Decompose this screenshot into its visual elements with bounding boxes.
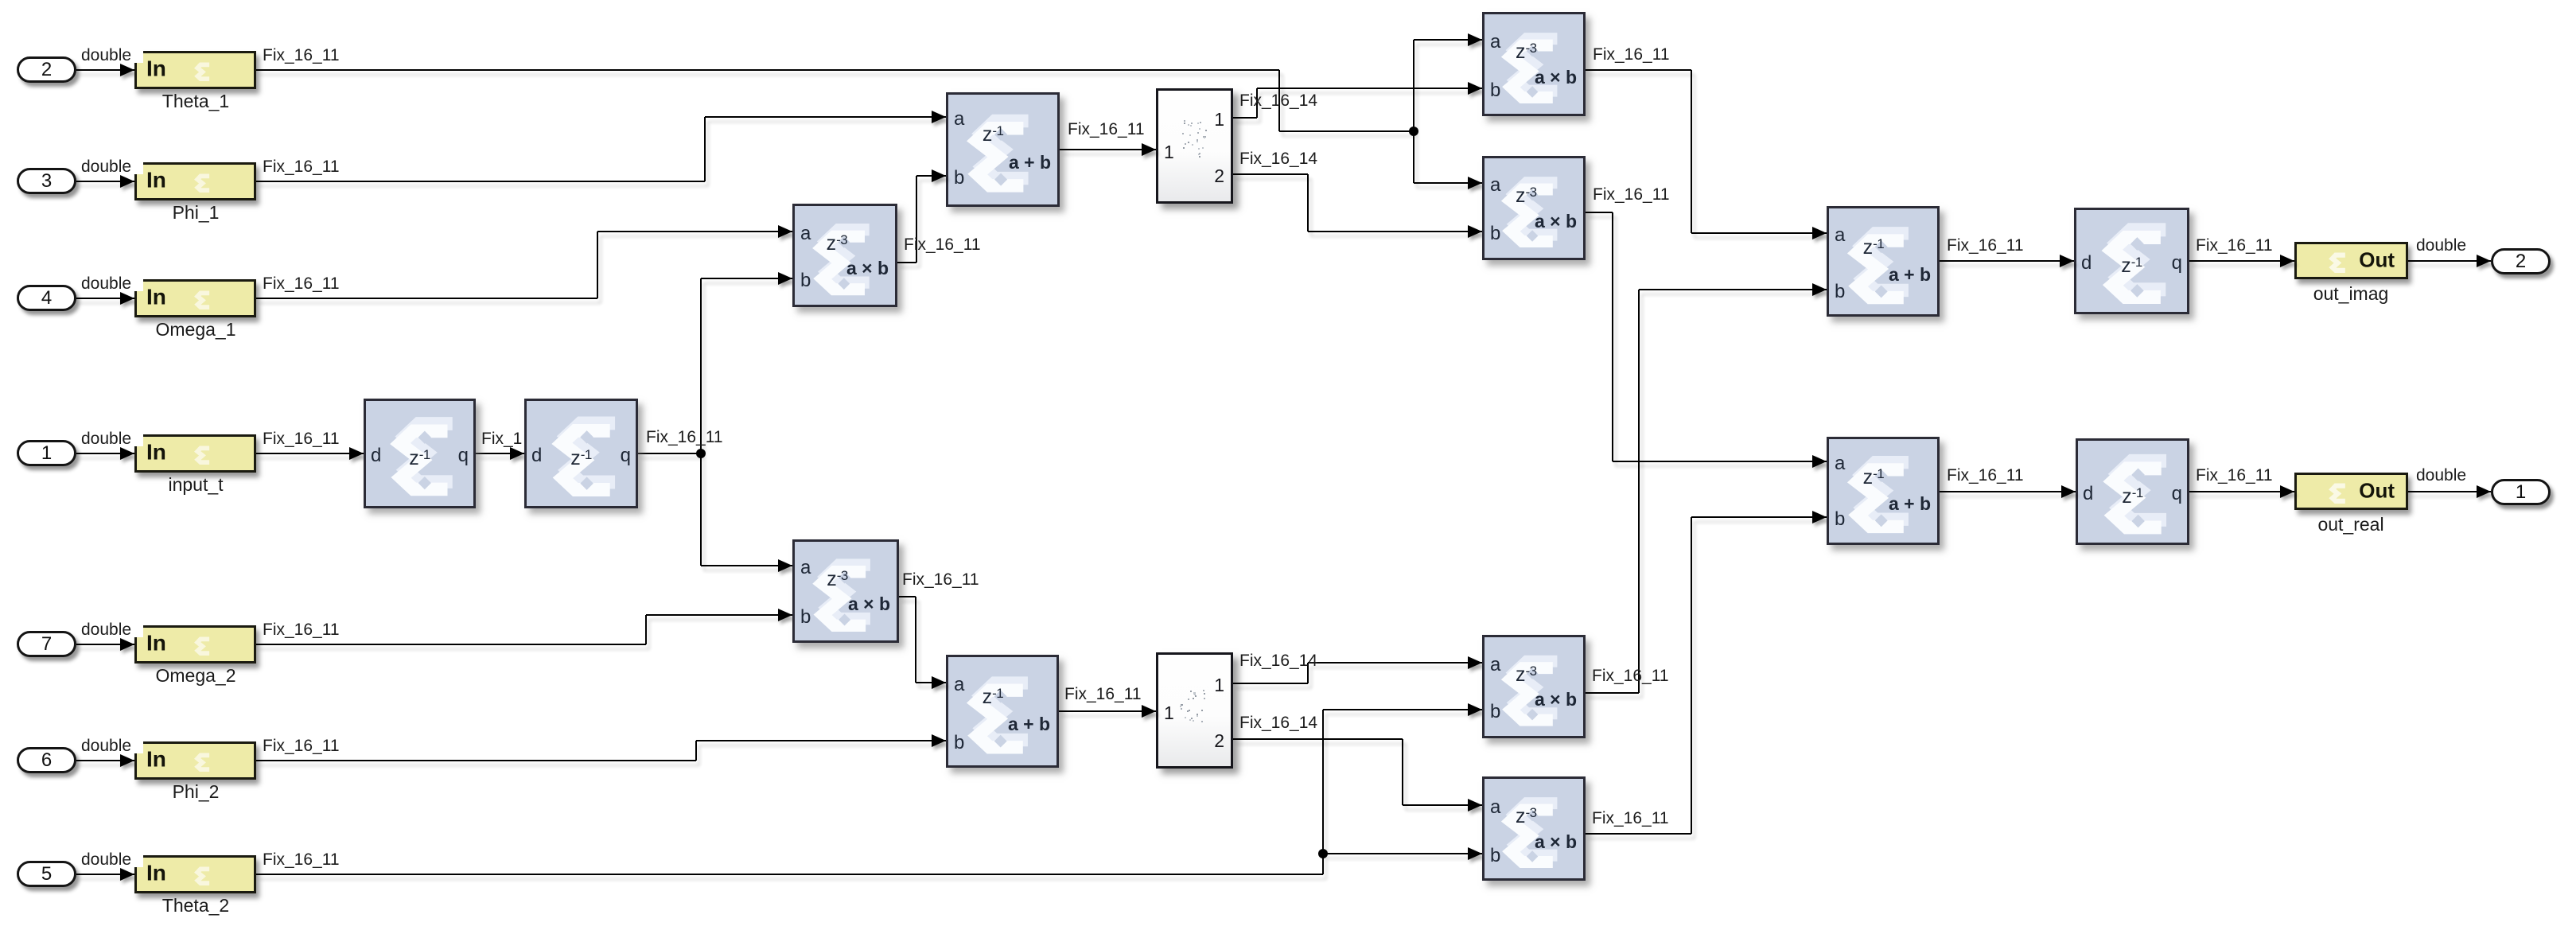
label Fix_16_11 after Phi_2 xyxy=(263,737,340,754)
wire AddSub4 to Delay4 xyxy=(1940,491,2076,492)
wire Phi_1 inport to gateway xyxy=(76,181,134,182)
label Phi_2 name xyxy=(173,781,220,803)
mult Mult2 (Omega_2 x t) xyxy=(792,539,899,643)
wire delay2 to junction xyxy=(638,453,701,454)
label Fix_16_11 AddSub1 out xyxy=(1068,121,1145,138)
label Fix_16_11 Delay3 out xyxy=(2196,237,2273,254)
arrowhead addsub AddSub2 a xyxy=(932,676,946,689)
gateway In Phi_2 xyxy=(134,741,256,780)
wire SinCos1 out1 to Mult3 b xyxy=(1257,88,1482,89)
arrowhead addsub AddSub2 b xyxy=(932,734,946,747)
gateway In Phi_1 xyxy=(134,162,256,200)
arrowhead into gateway Phi_2 xyxy=(120,754,134,767)
label Fix_16_11 Mult1 out xyxy=(904,236,981,253)
wire Theta_1 to junction xyxy=(1279,130,1414,132)
wire Delay4 to out_real xyxy=(2189,491,2294,492)
arrowhead delay3 d xyxy=(2060,255,2074,267)
arrowhead mult Mult6 b xyxy=(1468,847,1482,860)
wire Mult5 out rise xyxy=(1638,290,1640,693)
arrowhead addsub AddSub1 a xyxy=(932,111,946,123)
wire Omega_1 run xyxy=(256,298,597,299)
wire AddSub1 to SinCos1 xyxy=(1060,149,1156,150)
port output 2 xyxy=(2491,248,2551,274)
arrowhead mult Mult5 a xyxy=(1468,656,1482,669)
label Fix_16_11 after Omega_1 xyxy=(263,275,340,292)
label double Omega_1 xyxy=(81,275,143,291)
wire SinCos2 out1 rise xyxy=(1307,663,1309,683)
wire SinCos1 out2 to Mult4 b xyxy=(1308,231,1482,232)
wire delay1 to delay2 xyxy=(476,453,524,454)
gateway In Theta_2 xyxy=(134,855,256,893)
arrowhead mult Mult1 b xyxy=(778,272,792,285)
arrowhead addsub AddSub3 b xyxy=(1812,283,1827,296)
wire Mult1 out stub xyxy=(897,262,916,263)
wire SinCos2 out2 stub xyxy=(1233,738,1403,740)
delay block Delay4 (z^-1) xyxy=(2076,438,2189,545)
delay block Delay2 (z^-1) xyxy=(524,399,638,508)
label Fix_16_11 Mult4 out xyxy=(1593,186,1670,203)
wire out_imag to port2 xyxy=(2408,260,2491,262)
label Omega_1 name xyxy=(155,319,235,341)
label double Phi_2 xyxy=(81,737,143,753)
wire Mult2 out stub xyxy=(899,596,916,597)
wire out_real to port1 xyxy=(2408,491,2491,492)
wire Theta_1 run xyxy=(256,69,1279,71)
wire Theta_2 run xyxy=(256,874,1323,875)
label Fix_16_11 after Phi_1 xyxy=(263,158,340,175)
subsystem SinCos2 (sincos) xyxy=(1156,652,1233,769)
wire Mult4 out stub xyxy=(1586,212,1613,213)
wire Theta_2 riser xyxy=(1322,710,1324,874)
gateway In Theta_1 xyxy=(134,51,256,89)
wire AddSub3 to Delay3 xyxy=(1940,260,2074,262)
wire Theta_2 inport to gateway xyxy=(76,874,134,875)
arrowhead addsub AddSub1 b xyxy=(932,169,946,182)
label Fix_16_11 after input_t xyxy=(263,430,340,447)
label Fix_16_11 after Theta_1 xyxy=(263,47,340,64)
wire Mult3 out drop xyxy=(1691,70,1692,233)
wire SinCos2 out1 stub xyxy=(1233,683,1308,684)
wire SinCos1 out1 rise xyxy=(1256,88,1258,118)
wire Omega_2 inport to gateway xyxy=(76,644,134,645)
arrowhead mult Mult2 b xyxy=(778,609,792,621)
wire Mult5 out stub xyxy=(1586,692,1639,694)
wire SinCos2 out2 to Mult6 a xyxy=(1403,804,1482,806)
arrowhead mult Mult4 b xyxy=(1468,225,1482,238)
label Fix_16_14 SinCos1 out2 xyxy=(1239,150,1317,167)
arrowhead SinCos2 in xyxy=(1142,705,1156,718)
arrowhead addsub AddSub3 a xyxy=(1812,227,1827,239)
arrowhead into gateway Phi_1 xyxy=(120,175,134,188)
label Fix_16_11 Mult6 out xyxy=(1592,810,1669,827)
mult Mult1 (Omega_1 x t) xyxy=(792,204,897,307)
wire Theta_1 to mult a (second) xyxy=(1414,182,1482,184)
wire Mult4 to AddSub4 a xyxy=(1613,461,1827,462)
label Fix_16_11 Delay4 out xyxy=(2196,467,2273,484)
gateway In Omega_1 xyxy=(134,279,256,317)
gateway In input_t xyxy=(134,434,256,473)
wire Mult4 out drop xyxy=(1612,212,1613,461)
label Theta_2 name xyxy=(162,895,229,916)
wire Mult3 to AddSub3 a xyxy=(1691,232,1827,234)
arrowhead mult Mult1 a xyxy=(778,225,792,238)
arrowhead addsub AddSub4 b xyxy=(1812,511,1827,523)
port output 1 xyxy=(2491,479,2551,505)
label double Omega_2 xyxy=(81,621,143,637)
wire Omega_1 to mult a xyxy=(597,231,792,232)
gateway Out out_imag xyxy=(2294,242,2408,279)
arrowhead mult Mult6 a xyxy=(1468,799,1482,811)
mult Mult3 (cos1*?) xyxy=(1482,12,1586,116)
wire Mult3 out run xyxy=(1586,69,1691,71)
wire SinCos2 out2 drop xyxy=(1402,739,1403,805)
arrowhead addsub AddSub4 a xyxy=(1812,455,1827,468)
wire Phi_2 to addsub2 b xyxy=(696,740,946,741)
wire Mult2 to AddSub2 a xyxy=(916,682,946,683)
wire Phi_1 rise xyxy=(704,117,706,181)
arrowhead into gateway Theta_2 xyxy=(120,868,134,881)
arrowhead SinCos1 in xyxy=(1142,143,1156,156)
label double out_imag xyxy=(2416,237,2466,254)
wire input_t riser xyxy=(700,278,702,566)
port input 4 xyxy=(17,285,76,311)
arrowhead mult Mult3 a xyxy=(1468,33,1482,46)
addsub AddSub4 (real) xyxy=(1827,437,1940,545)
gateway Out out_real xyxy=(2294,473,2408,510)
wire Mult2 out drop xyxy=(915,597,916,683)
label double Theta_1 xyxy=(81,47,143,63)
arrowhead port 1 in xyxy=(2477,485,2491,498)
label Fix_16_11 Mult2 out xyxy=(902,571,979,588)
arrowhead delay2 d xyxy=(510,447,524,460)
wire Omega_2 rise xyxy=(645,615,647,644)
label Fix_16_11 AddSub2 out xyxy=(1064,686,1142,702)
wire Mult6 out rise xyxy=(1691,517,1692,834)
wire input_t to mult1 b xyxy=(701,278,792,279)
wire AddSub2 to SinCos2 xyxy=(1059,710,1156,712)
wire Theta_1 branch vertical xyxy=(1413,40,1414,183)
port input 6 xyxy=(17,747,76,773)
addsub AddSub3 (imag) xyxy=(1827,206,1940,317)
wire Theta_2 to mult6 b xyxy=(1323,853,1482,854)
junction Theta_1 junction xyxy=(1409,126,1418,136)
wire Phi_1 to addsub a xyxy=(705,116,946,118)
label double Theta_2 xyxy=(81,851,143,867)
wire Theta_1 inport to gateway xyxy=(76,69,134,71)
label Omega_2 name xyxy=(155,665,235,687)
subsystem SinCos1 (sincos) xyxy=(1156,88,1233,204)
wire Theta_1 to mult a (top) xyxy=(1414,39,1482,41)
label Fix_16_11 after delay2 xyxy=(646,429,723,446)
junction Theta_2 junction xyxy=(1318,849,1328,858)
label double out_real xyxy=(2416,467,2466,484)
addsub AddSub2 (lower) xyxy=(946,655,1059,768)
wire Phi_2 run xyxy=(256,760,696,761)
wire SinCos1 out2 drop xyxy=(1307,174,1309,232)
wire Phi_2 inport to gateway xyxy=(76,760,134,761)
wire Delay3 to out_imag xyxy=(2189,260,2294,262)
arrowhead port 2 in xyxy=(2477,255,2491,267)
wire input_t to delay1 xyxy=(256,453,364,454)
label out_real name xyxy=(2317,514,2383,535)
wire input_t to mult2 a xyxy=(701,565,792,566)
gateway In Omega_2 xyxy=(134,625,256,664)
arrowhead into gateway Omega_2 xyxy=(120,638,134,651)
arrowhead mult Mult3 b xyxy=(1468,82,1482,95)
port input 3 xyxy=(17,168,76,194)
wire Omega_1 rise xyxy=(597,232,598,298)
arrowhead into gateway Theta_1 xyxy=(120,64,134,76)
port input 7 xyxy=(17,631,76,657)
label Fix_16_14 SinCos1 out1 xyxy=(1239,92,1317,109)
arrowhead gateway out_imag in xyxy=(2280,255,2294,267)
label Fix_16_14 SinCos2 out1 xyxy=(1239,652,1317,669)
wire SinCos1 out1 stub xyxy=(1233,117,1257,119)
wire Mult6 to AddSub4 b xyxy=(1691,516,1827,518)
label double Phi_1 xyxy=(81,158,143,174)
label Phi_1 name xyxy=(173,202,220,224)
label Fix_16_11 Mult5 out xyxy=(1592,667,1669,684)
wire Omega_2 run xyxy=(256,644,646,645)
label Fix_16_11 Mult3 out xyxy=(1593,46,1670,63)
wire Mult6 out run xyxy=(1586,833,1691,835)
port input 1 xyxy=(17,440,76,466)
arrowhead delay1 d xyxy=(349,447,364,460)
arrowhead mult Mult5 b xyxy=(1468,703,1482,716)
label Fix_16_11 after Omega_2 xyxy=(263,621,340,638)
arrowhead mult Mult2 a xyxy=(778,559,792,572)
label input_t name xyxy=(168,474,223,496)
arrowhead delay4 d xyxy=(2061,485,2076,498)
wire SinCos1 out2 stub xyxy=(1233,173,1308,175)
label Theta_1 name xyxy=(162,91,229,112)
label Fix_16_14 SinCos2 out2 xyxy=(1239,714,1317,731)
addsub AddSub1 (upper) xyxy=(946,92,1060,207)
label Fix_16_11 after Theta_2 xyxy=(263,851,340,868)
port input 5 xyxy=(17,861,76,887)
label out_imag name xyxy=(2313,283,2389,305)
arrowhead into gateway Omega_1 xyxy=(120,292,134,305)
label double input_t xyxy=(81,430,143,446)
arrowhead mult Mult4 a xyxy=(1468,177,1482,189)
port input 2 xyxy=(17,56,76,83)
mult Mult5 xyxy=(1482,635,1586,738)
wire Phi_2 rise xyxy=(695,741,697,761)
wire Mult5 to AddSub3 b xyxy=(1639,289,1827,290)
mult Mult6 xyxy=(1482,776,1586,881)
arrowhead gateway out_real in xyxy=(2280,485,2294,498)
wire Omega_2 to mult2 b xyxy=(646,614,792,616)
wire Theta_1 drop xyxy=(1278,70,1280,131)
junction input_t junction xyxy=(696,449,706,458)
wire Mult1 to AddSub1 b xyxy=(916,175,946,177)
label Fix_1 between delays xyxy=(481,430,522,447)
label Fix_16_11 AddSub4 out xyxy=(1947,467,2024,484)
mult Mult4 xyxy=(1482,156,1586,260)
wire SinCos2 out1 to Mult5 a xyxy=(1308,662,1482,664)
wire input_t inport to gateway xyxy=(76,453,134,454)
label Fix_16_11 AddSub3 out xyxy=(1947,237,2024,254)
delay block Delay1 (z^-1) xyxy=(364,399,476,508)
wire Mult1 out rise xyxy=(916,176,917,263)
wire Omega_1 inport to gateway xyxy=(76,298,134,299)
wire Theta_2 to mult5 b xyxy=(1323,709,1482,710)
wire Phi_1 run xyxy=(256,181,705,182)
arrowhead into gateway input_t xyxy=(120,447,134,460)
delay block Delay3 (z^-1) xyxy=(2074,208,2189,314)
